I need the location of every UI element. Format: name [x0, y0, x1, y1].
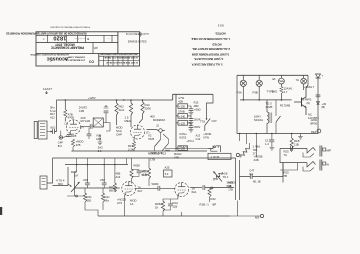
label stack R1	[50, 106, 57, 120]
wire: R8 leads	[116, 100, 118, 125]
svg-text:1K: 1K	[155, 205, 159, 209]
input module box	[53, 167, 69, 186]
svg-text:MOD5: MOD5	[228, 181, 236, 185]
node dots heater bus	[239, 133, 293, 135]
wire: PL3 stem	[303, 75, 305, 90]
label MO2 47B below box D	[174, 152, 182, 159]
label MOD E12	[148, 152, 166, 156]
wire: V2 output to jack	[147, 130, 159, 131]
label 40UF	[194, 108, 201, 112]
wire: plate to C3	[81, 126, 91, 128]
label R25	[142, 169, 147, 176]
title "PREAMP SCHEMATIC" (upside down)	[50, 46, 84, 50]
label V2 7025	[148, 134, 155, 141]
label MOD 1A	[130, 199, 137, 207]
wire: C11 taps	[188, 116, 192, 122]
svg-text:A73: A73	[117, 201, 122, 205]
neon lamp PL3	[301, 78, 307, 84]
wire: bus right end riser	[306, 75, 308, 88]
note 2	[192, 47, 230, 51]
wire: bottom ground bus	[98, 215, 230, 217]
revision strip tiny text row2	[104, 56, 138, 59]
triode V2	[131, 125, 145, 139]
svg-text:J2: J2	[156, 124, 159, 128]
revision strip row lines	[99, 56, 140, 60]
resistor R25 interstage	[147, 168, 150, 179]
wire: C24 taps	[163, 199, 171, 210]
wire: C10 taps	[188, 106, 192, 112]
svg-text:550: 550	[87, 198, 92, 202]
ground G3	[189, 113, 194, 116]
label 450V	[194, 125, 200, 129]
capacitor C15 on right column	[316, 95, 321, 97]
svg-text:A13: A13	[196, 134, 201, 138]
svg-text:4MF: 4MF	[194, 104, 200, 108]
svg-text:+125: +125	[179, 121, 186, 125]
node dots aux rail	[76, 164, 116, 166]
resistor R24 plate V3	[130, 169, 133, 179]
capacitor C17	[270, 140, 275, 142]
wire: pot to V3 grid	[75, 187, 120, 189]
svg-text:+60Ω: +60Ω	[194, 108, 201, 112]
svg-text:(7): (7)	[146, 131, 149, 135]
svg-text:6A7: 6A7	[138, 189, 143, 193]
note 4	[194, 57, 224, 61]
terminal circle MS	[260, 214, 263, 217]
wire: R21 leads	[84, 188, 86, 206]
wire: heater drop right	[300, 134, 302, 137]
node box +140 B	[176, 114, 188, 119]
svg-text:FORM 102 REV PRINTED IN USA DW: FORM 102 REV PRINTED IN USA DWG	[50, 26, 90, 29]
resistor R6 plate V2	[141, 102, 144, 114]
wire: upper B+ bus	[57, 99, 173, 101]
wire: power top bus	[237, 74, 308, 76]
wire: PL2 stem	[258, 75, 260, 100]
logo dark mark	[89, 60, 94, 64]
wire: S3 leads	[275, 100, 277, 134]
title block blank cell divider	[117, 32, 119, 54]
note 5	[192, 63, 223, 67]
node dots upper bus	[65, 99, 144, 101]
wire: V3 plate to V4 grid	[135, 187, 176, 189]
slant resistor R31 adjust pot	[240, 145, 251, 158]
label C24	[173, 201, 179, 208]
wire: V3 cathode to bottom bus	[123, 195, 125, 216]
pilot lamp PL2	[256, 80, 262, 86]
node box +125 C	[176, 121, 188, 126]
jack F footswitch	[208, 146, 221, 152]
wire: bars top to bus	[235, 158, 237, 160]
svg-text:A1B: A1B	[96, 137, 101, 141]
svg-text:24B: 24B	[285, 104, 290, 108]
label Q1	[304, 85, 315, 89]
svg-text:WAX: WAX	[159, 118, 165, 122]
label C17	[265, 139, 271, 146]
label C20	[83, 178, 89, 182]
svg-text:+150: +150	[179, 105, 186, 109]
capacitor C5	[87, 134, 92, 136]
wire: R6 to plate V2	[139, 100, 143, 123]
ground G8	[98, 142, 103, 145]
svg-text:1.2: 1.2	[265, 142, 269, 146]
label W051 A12	[151, 151, 163, 155]
title text: top row tiny print (upside down)	[6, 32, 87, 34]
wire: pot bottom rail	[67, 193, 85, 196]
terminal circle pin1	[59, 136, 62, 139]
svg-text:R1B / 1: R1B / 1	[200, 203, 210, 207]
svg-text:5TAB: 5TAB	[178, 109, 185, 113]
wire: R4 lower lead	[72, 147, 74, 151]
fuse F1	[279, 78, 285, 84]
wire: pin1 link	[61, 131, 67, 138]
svg-text:K7W: K7W	[203, 135, 209, 139]
wire: C17 leads	[271, 134, 273, 148]
svg-text:NO.5: NO.5	[217, 23, 223, 26]
svg-text:acoustic: acoustic	[47, 55, 68, 61]
capacitor C25 coupling	[203, 185, 205, 190]
label R17 24B	[280, 104, 290, 108]
svg-text:(D): (D)	[307, 102, 311, 105]
svg-text:+PO.2: +PO.2	[187, 139, 195, 143]
wire: C12 taps	[188, 123, 192, 129]
capacitor C2 cathode	[67, 135, 72, 137]
svg-text:SCA: SCA	[119, 108, 125, 112]
svg-text:MYLAR: MYLAR	[81, 119, 91, 123]
svg-text:11B: 11B	[294, 142, 299, 146]
svg-text:45B: 45B	[116, 172, 121, 176]
small marks in number row	[74, 37, 86, 41]
faint word above notes	[217, 23, 223, 26]
wire: heater drop 0	[239, 134, 241, 142]
svg-text:R42: R42	[211, 197, 217, 201]
svg-text:56x: 56x	[105, 198, 110, 202]
node dot S2	[206, 118, 208, 120]
svg-text:12AX7: 12AX7	[43, 87, 52, 91]
triode V1 dashed envelope	[66, 120, 80, 134]
label R7	[128, 144, 134, 151]
capacitor C20	[85, 183, 90, 185]
title block row line tiny-text	[36, 34, 118, 36]
wire: right column drop	[317, 78, 319, 134]
title block title row divider	[92, 43, 94, 54]
svg-text:(B): (B)	[322, 105, 326, 109]
svg-text:A13: A13	[116, 175, 121, 179]
wire: PL1 stem	[242, 75, 244, 100]
label R27	[211, 197, 217, 201]
label A25	[165, 166, 170, 176]
choke L1	[267, 112, 272, 123]
svg-text:C12: C12	[196, 137, 201, 141]
component box tone network	[93, 118, 103, 127]
terminal circle T2	[236, 153, 239, 156]
label choke 10HY	[254, 115, 263, 122]
capacitor C11 filter	[189, 119, 194, 121]
svg-text:7A: 7A	[284, 153, 288, 157]
svg-text:REPRODUCTION OR USE WITHOUT WR: REPRODUCTION OR USE WITHOUT WRITTEN PERM…	[6, 32, 87, 34]
label V4	[192, 187, 197, 194]
wire: C4 lead down	[105, 113, 107, 123]
capacitor C22 beside R24	[137, 171, 142, 173]
jack J2 output	[159, 129, 165, 133]
svg-text:+125V: +125V	[88, 96, 96, 100]
svg-text:.003: .003	[83, 178, 89, 182]
wire: R2 leads	[64, 100, 66, 122]
label R28	[223, 172, 229, 180]
resistor R32	[290, 138, 293, 149]
label above box1	[178, 96, 184, 103]
svg-text:(W): (W)	[93, 46, 97, 50]
svg-text:54/10A: 54/10A	[254, 118, 263, 122]
wire: V2 cathode leads	[133, 139, 135, 151]
wire: bus left vertical	[56, 100, 58, 131]
label MOD SCA CHP	[116, 126, 123, 137]
label R6	[145, 103, 152, 110]
svg-text:7B: 7B	[284, 174, 288, 178]
svg-text:+140: +140	[179, 114, 186, 118]
resistor R19 under fuse	[280, 87, 283, 94]
svg-text:+105: +105	[179, 146, 186, 150]
pilot lamp PL1	[240, 80, 246, 86]
switch S1 contact a	[155, 140, 161, 147]
svg-text:M1 1B: M1 1B	[253, 180, 261, 184]
wire: C1 to grid vertical	[54, 131, 56, 132]
jack J4 bushing bars	[320, 146, 322, 157]
svg-text:+NO61: +NO61	[203, 132, 212, 136]
jack J4 terminal square	[323, 148, 326, 151]
tiny text above acoustic (upside down)	[29, 53, 68, 56]
capacitor C23 coupling	[158, 186, 160, 191]
wire: pot top feed	[75, 165, 77, 182]
wire: F1 stem	[280, 75, 282, 86]
capacitor C1 input coupling	[53, 129, 55, 134]
svg-text:CHP: CHP	[116, 133, 122, 137]
label 1/2 7025	[66, 134, 77, 138]
label TO-3 24VB	[266, 102, 273, 110]
svg-text:17B: 17B	[228, 188, 233, 192]
input jack J3	[40, 176, 47, 189]
wire: B+ trunk vertical	[175, 94, 177, 150]
capacitor C10 filter	[189, 109, 194, 111]
svg-text:W: W	[327, 163, 330, 167]
potentiometer R20 volume	[71, 181, 80, 193]
wire: C20 leads	[86, 165, 88, 189]
svg-text:+1B: +1B	[142, 172, 147, 176]
potentiometer R28 master	[213, 171, 223, 182]
svg-text:BP: BP	[213, 203, 217, 207]
label MOD 400	[150, 115, 155, 119]
label J2	[156, 124, 159, 128]
wire: lower jack drop	[280, 163, 298, 170]
title block acoustic cell divider	[98, 54, 100, 67]
label C4T W1	[249, 169, 254, 176]
node box +150 A	[176, 104, 188, 109]
wire: rail tie verticals	[77, 158, 127, 165]
wire: G8 stem	[99, 135, 101, 142]
label C4P B0	[58, 141, 63, 148]
label R19	[284, 87, 293, 94]
svg-text:MIP: MIP	[327, 149, 332, 153]
ground G9	[298, 137, 303, 140]
wire: bottom bus risers	[182, 201, 238, 217]
resistor R7 cathode V2	[132, 142, 135, 149]
wire: S2 leads	[205, 94, 213, 131]
label 3A0B 54B	[227, 181, 234, 189]
svg-text:MOΩ2: MOΩ2	[174, 152, 182, 156]
svg-text:W00F: W00F	[152, 182, 160, 186]
wire: choke leads	[266, 100, 268, 134]
drawing number 1820 (upside down)	[53, 35, 66, 41]
label R21	[87, 195, 93, 202]
label 5A3 5.1	[98, 146, 103, 153]
resistor R2 plate	[64, 110, 67, 119]
label KONu NO52	[179, 132, 187, 139]
svg-text:--: --	[108, 37, 110, 40]
svg-text:41.7: 41.7	[309, 85, 315, 89]
capacitor C4 to ground	[104, 111, 109, 113]
svg-text:B 1107 PER ECN 6.12.74 RL W: B 1107 PER ECN 6.12.74 RL W	[105, 61, 137, 64]
wire: R27 lower lead	[209, 197, 211, 202]
svg-text:A 1030 REDRAWN 4.2.74 JW HB: A 1030 REDRAWN 4.2.74 JW HB	[104, 56, 138, 59]
resistor R23 grid stop	[113, 183, 116, 192]
wire: C5 leads	[88, 128, 90, 140]
svg-text:P3A: P3A	[237, 91, 242, 95]
notes heading	[215, 32, 226, 36]
cell mark (w)	[93, 46, 97, 50]
title block row line under titles	[36, 53, 140, 55]
company tiny text (upside down)	[67, 56, 85, 58]
svg-text:+1B: +1B	[223, 172, 228, 176]
wire: bus elbow to supply column	[173, 94, 213, 100]
label R24 network	[134, 164, 150, 178]
label R32	[294, 139, 300, 146]
node box +105 D	[176, 146, 188, 151]
capacitor C21	[102, 183, 107, 185]
resistor R22	[101, 193, 104, 202]
svg-text:IN UU UNLESS OTH: IN UU UNLESS OTH	[126, 33, 149, 36]
resistor R27	[208, 188, 211, 197]
label R22	[105, 195, 111, 202]
svg-text:B: B	[87, 37, 89, 41]
switch S3	[276, 116, 281, 122]
title block number row dividers	[48, 35, 112, 42]
svg-text:C1B: C1B	[79, 109, 84, 113]
svg-text:24VB: 24VB	[266, 105, 273, 109]
label R2 values	[68, 112, 74, 119]
wire: R24 leads	[131, 158, 133, 184]
label V3	[138, 186, 143, 193]
label R4 values	[76, 140, 84, 147]
svg-text:BP1: BP1	[314, 116, 320, 120]
transistor Q1	[294, 88, 306, 115]
svg-text:7A: 7A	[296, 78, 300, 82]
resistor R21	[83, 193, 86, 202]
label R26	[155, 202, 162, 209]
label +30 B	[322, 102, 327, 109]
shield bar pair	[236, 160, 240, 200]
capacitor C27 on feed	[291, 146, 293, 151]
node dots mid rail	[243, 99, 283, 101]
wire: switch leads	[155, 132, 169, 151]
label A13 C12	[196, 134, 201, 141]
wire: R31 top lead	[240, 143, 250, 157]
svg-text:A13: A13	[161, 152, 166, 156]
note 1	[191, 37, 230, 41]
svg-text:1A: 1A	[130, 202, 134, 206]
vertical text outside right edge	[139, 32, 142, 37]
wire: box output down to bus	[103, 123, 110, 132]
wire: R19 lower lead	[280, 94, 282, 100]
svg-text:R050: R050	[134, 164, 141, 168]
faint text above title block	[50, 26, 90, 29]
label +NO61 K7W	[203, 132, 212, 139]
svg-text:4.7: 4.7	[284, 90, 288, 94]
svg-text:120: 120	[308, 116, 313, 120]
svg-text:917: 917	[109, 185, 114, 189]
wire: R25 leads	[148, 158, 150, 186]
svg-text:47B: 47B	[76, 143, 81, 147]
terminal circle REF	[317, 129, 321, 133]
input jack J1	[34, 121, 47, 139]
title block outer border	[36, 32, 140, 66]
jack J5 terminal square	[323, 162, 326, 165]
component box A25	[164, 170, 173, 177]
svg-text:3.( ) NOT PER BSP NOMEN 12936: 3.( ) NOT PER BSP NOMEN 12936	[191, 52, 229, 56]
revision strip tiny text row3	[105, 61, 137, 64]
triode V3	[122, 182, 136, 196]
wire: R5 leads	[130, 100, 132, 127]
capacitor C3 coupling	[90, 124, 92, 129]
wire: R23 leads	[114, 165, 116, 193]
wire: jack to grid	[47, 131, 52, 132]
jack J5 spring contact	[303, 162, 316, 172]
svg-text:4.( ) NOT PER CALLOUTS.: 4.( ) NOT PER CALLOUTS.	[194, 57, 224, 61]
wire: C25 to pot	[205, 187, 234, 189]
wire: jack routing loop	[280, 149, 307, 183]
svg-text:O1T: O1T	[212, 119, 218, 123]
capacitor C24 cathode bypass V4	[168, 204, 173, 206]
label R23	[109, 185, 114, 193]
svg-text:17: 17	[253, 151, 257, 155]
svg-text:3AG: 3AG	[272, 90, 278, 94]
svg-text:KONu: KONu	[179, 132, 187, 136]
wire: heater bus	[237, 133, 318, 135]
label R25 7B	[284, 171, 290, 179]
svg-text:220K: 220K	[145, 106, 152, 110]
svg-text:BP50: BP50	[311, 122, 318, 126]
label MOD WAX	[153, 118, 165, 122]
label S2	[200, 119, 217, 124]
wire: power bus left riser	[236, 75, 238, 133]
svg-text:NOTED: NOTED	[212, 42, 221, 46]
svg-text:=: =	[43, 37, 45, 41]
revision strip column dividers	[104, 56, 134, 66]
wire: C21 leads	[103, 165, 105, 189]
scan speck left edge	[0, 207, 2, 215]
diode D1 with plus	[316, 74, 321, 78]
svg-text:E12: E12	[155, 152, 160, 156]
ground G1 inverted above wire	[104, 105, 109, 108]
revision strip tiny text row1	[100, 53, 138, 56]
label R1B BP	[200, 203, 217, 207]
label V0B near box	[96, 134, 101, 142]
label above box2	[178, 109, 185, 113]
svg-text:.052: .052	[100, 178, 106, 182]
resistor R4 cathode	[71, 139, 74, 147]
svg-text:450V: 450V	[194, 125, 200, 129]
boxed callout TB20	[208, 153, 231, 159]
label +NO23 A73	[117, 198, 126, 206]
wire: lower channel B+ bus	[53, 157, 236, 159]
